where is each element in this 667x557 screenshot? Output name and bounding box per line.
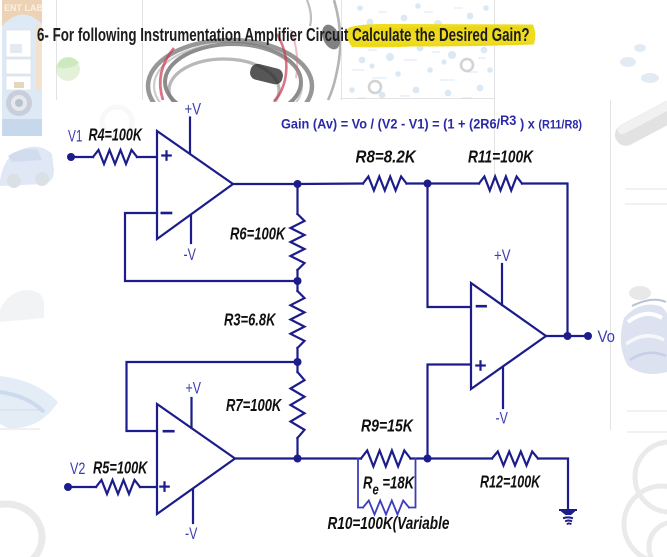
wire U2 output to node D (235, 457, 298, 459)
wire node B to R3 (296, 281, 298, 291)
label V2 (70, 461, 85, 479)
grey tube right (611, 96, 667, 149)
op-amp U1 (157, 131, 233, 239)
node F junction (424, 180, 432, 188)
svg-text:+V: +V (494, 247, 511, 266)
label Re value (363, 474, 416, 498)
resistor R9 (361, 451, 411, 467)
label R5 value (93, 459, 148, 478)
svg-text:R3=6.8K: R3=6.8K (224, 311, 277, 330)
resistor R10 (363, 501, 409, 515)
wire U1 feedback (inverting input to node B) (125, 213, 298, 281)
svg-text:R5=100K: R5=100K (93, 459, 148, 478)
silver car thumb left (0, 290, 44, 322)
gain formula (281, 112, 582, 131)
grid cell borders (0, 0, 667, 432)
label R8 value (356, 148, 417, 167)
node B junction (294, 277, 302, 285)
node E junction (424, 455, 432, 463)
op-amp U2 (157, 404, 235, 514)
faint ellipse bottom-left (0, 504, 42, 557)
svg-text:V2: V2 (70, 461, 85, 479)
label R3 value (224, 311, 277, 330)
small grey ellipse right (629, 286, 651, 300)
svg-text:R12=100K: R12=100K (480, 473, 541, 493)
node Vo output terminal (584, 332, 592, 340)
node A junction (294, 180, 302, 188)
resistor R6 (291, 214, 305, 270)
label R10 value (328, 514, 450, 533)
wire R11 right down to output node G (feedback) (522, 184, 568, 337)
label R12 value (480, 473, 541, 493)
label -V of U3 (496, 410, 509, 428)
wire R10 up to rail (right side) (409, 459, 416, 508)
svg-text:R10=100K(Variable: R10=100K(Variable (328, 514, 450, 533)
green ball logo (56, 57, 80, 81)
svg-text:Re =18K: Re =18K (363, 474, 416, 498)
svg-text:R11=100K: R11=100K (468, 148, 534, 167)
node V1 input terminal (67, 153, 75, 161)
svg-text:Gain (Av) = Vo / (V2 - V1): Gain (Av) = Vo / (V2 - V1) = (1 + (2R6/R… (281, 112, 582, 131)
wire R6 to node B (296, 270, 298, 281)
svg-text:R9=15K: R9=15K (361, 417, 414, 436)
wire V1 to R4 (71, 156, 93, 158)
label R11 value (468, 148, 534, 167)
wire V2 to R5 (68, 486, 96, 488)
wire U3 output to Vo (546, 335, 588, 337)
node G junction (564, 332, 572, 340)
wire U1 output to node A (233, 183, 298, 185)
label V1 (68, 128, 82, 146)
-V supply stub U3 (502, 367, 504, 408)
label R4 value (89, 125, 143, 145)
svg-text:Vo: Vo (598, 328, 616, 346)
label +V of U3 (494, 247, 511, 266)
wire U2 feedback (inverting input to node C) (127, 362, 298, 431)
svg-text:R8=8.2K: R8=8.2K (356, 148, 417, 167)
very faint logo (102, 107, 132, 137)
wire R5 to U2 + input (140, 486, 157, 488)
node C junction (294, 358, 302, 366)
label R7 value (226, 396, 283, 415)
wire R3 to node C (296, 348, 298, 362)
svg-text:R6=100K: R6=100K (230, 225, 287, 244)
svg-text:R4=100K: R4=100K (89, 125, 143, 145)
wire node A down to R6 (296, 184, 298, 214)
resistor R7 (291, 372, 305, 438)
resistor R5 (96, 480, 140, 494)
+V supply stub U1 (189, 118, 191, 154)
blue car thumb left (0, 147, 54, 188)
wire node F down to U3 inverting input (428, 184, 472, 308)
node D junction (294, 455, 302, 463)
node V2 input terminal (64, 483, 72, 491)
faint marks far top-right (620, 44, 659, 83)
resistor R4 (93, 150, 137, 164)
svg-text:-V: -V (184, 246, 197, 264)
wire node D to R9 (298, 457, 362, 459)
brochure thumb top-left (2, 0, 43, 136)
wire R12 to ground (538, 459, 568, 510)
resistor R12 (492, 452, 538, 466)
+V supply stub U3 (501, 264, 503, 305)
faint coil circles bottom-right (624, 442, 667, 557)
ground (560, 510, 576, 524)
wire node C to R7 (296, 362, 298, 372)
wire R4 to U1 + input (137, 156, 157, 158)
wire branch down to R10 (left side) (358, 459, 363, 508)
-V supply stub U1 (190, 215, 192, 243)
wire R9 to node E (411, 457, 428, 459)
svg-text:+V: +V (186, 380, 202, 398)
label R6 value (230, 225, 287, 244)
wire R7 to node D (296, 438, 298, 459)
svg-text:+V: +V (185, 100, 202, 119)
wire R8 to node F (407, 182, 480, 184)
svg-text:-V: -V (185, 525, 198, 543)
svg-text:R7=100K: R7=100K (226, 396, 283, 415)
bluish cables right (621, 300, 667, 374)
+V supply stub U2 (190, 398, 192, 428)
-V supply stub U2 (192, 490, 194, 523)
wire node E to R12 (428, 457, 493, 459)
op-amp U3 (471, 283, 546, 389)
faded logo collage top-right (349, 3, 493, 98)
label Vo (598, 328, 616, 346)
blue swoosh left (0, 376, 58, 428)
wire node A to R8 (top rail) (298, 182, 364, 185)
svg-text:-V: -V (496, 410, 509, 428)
resistor R8 (363, 177, 407, 191)
label -V of U1 (184, 246, 197, 264)
resistor R11 (479, 177, 522, 191)
cables product photo top-centre (148, 0, 343, 132)
resistor R3 (291, 291, 305, 348)
label -V of U2 (185, 525, 198, 543)
wire node E up to U3 non-inverting input (428, 365, 472, 459)
svg-text:V1: V1 (68, 128, 82, 146)
label +V of U1 (185, 100, 202, 119)
label R9 value (361, 417, 414, 436)
label +V of U2 (186, 380, 202, 398)
